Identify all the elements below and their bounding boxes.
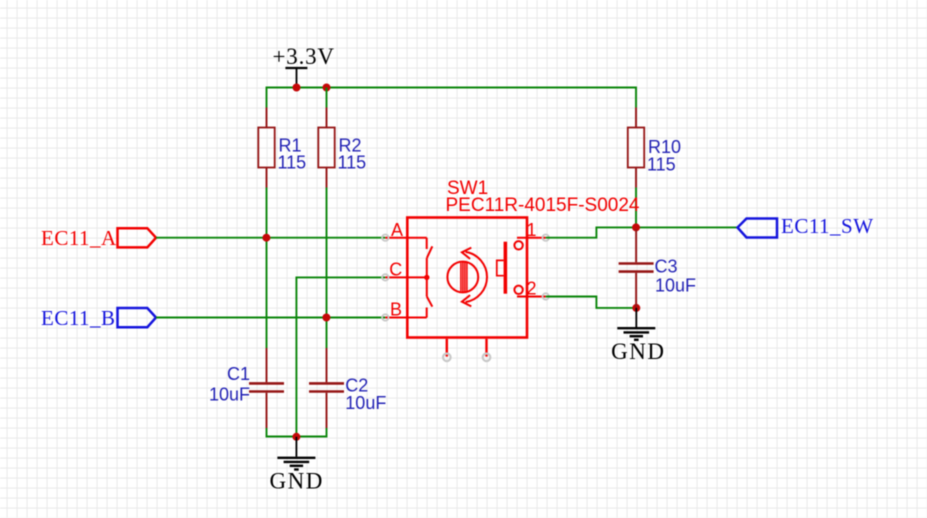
button contact circle 2: [514, 286, 522, 294]
wire A net: [156, 237, 385, 239]
shaft knurl hatch lines: [461, 262, 467, 292]
pad on pin A: [382, 235, 388, 241]
wire C net: [296, 277, 385, 436]
pin 2 of SW1: [517, 296, 546, 298]
svg-text:C3: C3: [655, 256, 678, 276]
resistor R2: [318, 108, 334, 188]
wire R2 column: [326, 188, 328, 349]
junction pin1 net / R10 / C3: [632, 223, 640, 231]
wire B net: [156, 317, 385, 319]
net port EC11_SW: [738, 219, 778, 238]
rotation arrow bottom: [462, 295, 471, 306]
svg-text:10uF: 10uF: [209, 384, 250, 404]
pad on pin C: [382, 274, 388, 280]
pin B of SW1: [385, 317, 426, 319]
net port EC11_A: [118, 228, 157, 247]
svg-text:115: 115: [647, 154, 676, 174]
svg-text:1: 1: [527, 220, 537, 240]
svg-text:C1: C1: [227, 364, 250, 384]
pin C of SW1: [385, 276, 427, 278]
net port EC11_B: [118, 308, 157, 327]
capacitor C1: [249, 348, 284, 428]
push button movable bar: [504, 242, 508, 294]
junction wire A / R1 column: [262, 234, 270, 242]
junction on top rail at power stem: [293, 84, 301, 92]
svg-text:GND: GND: [270, 469, 324, 494]
wire R10 column: [635, 188, 637, 228]
resistor R1: [258, 108, 274, 188]
rotation arrow top: [462, 248, 471, 259]
svg-text:EC11_SW: EC11_SW: [781, 214, 874, 238]
pad on right mounting pin: [483, 354, 491, 362]
switch contact stub from A: [426, 238, 428, 249]
pad on pin 2: [543, 293, 549, 299]
pin 1 of SW1: [517, 237, 546, 239]
svg-text:A: A: [391, 220, 403, 240]
junction wire B / R2 column: [322, 314, 330, 322]
svg-text:B: B: [390, 300, 402, 320]
capacitor C2: [309, 348, 344, 428]
wire R1 column: [266, 188, 268, 349]
svg-text:C: C: [389, 260, 402, 280]
wire stub from top rail to R2: [326, 88, 328, 108]
svg-text:+3.3V: +3.3V: [273, 44, 335, 69]
switch arm A: [427, 246, 432, 258]
link arm A to common: [426, 258, 428, 278]
wire pin 2 net to C3 bottom: [546, 297, 637, 308]
bottom mounting pin left of SW1: [446, 339, 448, 357]
power flag +3.3V: [285, 68, 307, 88]
svg-text:EC11_B: EC11_B: [41, 306, 116, 330]
svg-text:2: 2: [527, 279, 537, 299]
switch arm B: [427, 297, 433, 307]
ground GND (left): [277, 437, 315, 470]
button contact circle 1: [514, 241, 522, 249]
junction on top rail at R2 column: [323, 84, 331, 92]
junction bottom rail / ground: [292, 433, 300, 441]
wire bottom rail: [267, 428, 327, 437]
svg-text:GND: GND: [611, 339, 665, 364]
wire pin 1 net to EC11_SW: [546, 227, 738, 237]
svg-text:10uF: 10uF: [345, 393, 386, 413]
switch contact stub from B: [426, 308, 428, 318]
bottom mounting pin right of SW1: [485, 339, 487, 357]
pad on pin 1: [543, 235, 549, 241]
capacitor C3: [619, 229, 654, 308]
pad on pin B: [382, 314, 388, 320]
junction pin2 net / C3 / ground: [632, 304, 640, 312]
wire top rail: [267, 88, 637, 108]
rotation arc: [466, 252, 488, 302]
ground GND (right): [617, 308, 655, 340]
svg-text:115: 115: [338, 153, 367, 173]
push button actuator bracket: [497, 260, 504, 275]
common node dot inside SW1: [424, 275, 429, 280]
link common to arm B: [426, 277, 428, 296]
resistor R10: [628, 108, 644, 188]
pin A of SW1: [385, 237, 426, 239]
svg-text:10uF: 10uF: [655, 276, 696, 296]
svg-text:115: 115: [278, 153, 307, 173]
switch SW1 body: [407, 218, 527, 338]
svg-text:PEC11R-4015F-S0024: PEC11R-4015F-S0024: [446, 195, 640, 216]
pad on left mounting pin: [443, 354, 451, 362]
rotary shaft circle: [447, 262, 478, 293]
svg-text:EC11_A: EC11_A: [41, 226, 117, 250]
